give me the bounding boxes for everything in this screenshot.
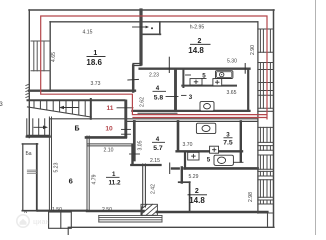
svg-text:3.65: 3.65 [227,90,237,96]
right wall window ladder bottom [258,127,274,204]
svg-text:h-2.95: h-2.95 [190,25,205,31]
red overlay apartment outline [41,16,267,120]
svg-text:5.29: 5.29 [189,174,199,180]
entrance porch [49,212,72,235]
wall right outer [273,10,275,227]
wall room5 bottom [182,85,236,87]
ticks corridor wall [122,129,131,134]
tick door room4b [130,153,140,155]
vent box 2 bottom [210,146,219,153]
wall room2b left jog [179,181,190,183]
wall cluster bottom (rooms 3,4) [132,110,249,112]
room5b bottom wall [185,167,258,170]
svg-text:3.05: 3.05 [138,140,144,150]
fixture toilet top apt [200,102,214,111]
leader room 5.8 [166,96,178,98]
svg-text:4.79: 4.79 [92,174,98,184]
wall room2 top inner [143,21,258,23]
svg-text:3.73: 3.73 [91,81,101,87]
wall room2b bottom [157,211,267,214]
svg-text:2.90: 2.90 [250,45,256,55]
left annex right wall [36,144,38,211]
left annex top wall [22,143,37,145]
right wall bottom step [258,212,274,214]
wall room2b left lower [189,182,191,211]
right wall window ladder top [258,29,274,108]
wall room5b left [184,153,186,169]
stairs arrow up flight [61,107,78,109]
svg-text:2.62: 2.62 [140,97,146,107]
svg-text:18.6: 18.6 [86,58,102,67]
vent box 1 top [190,79,202,85]
tick dim 5.30 [244,64,246,74]
wall room4b left vertical lower piece [131,145,133,165]
fixture washer bottom apt room5 [214,155,233,165]
wall room4b left [133,121,136,160]
wall corridor10 bottom band [27,136,50,138]
svg-text:2.50: 2.50 [102,207,112,213]
wall room1b top [87,143,133,145]
room3b left wall [177,121,180,150]
wall room1 top inner [50,21,141,23]
left annex window band [27,170,37,173]
svg-text:Б: Б [74,126,79,133]
window band below room1b [99,215,162,222]
room3b bottom wall [177,150,242,152]
vent arrow at partition [133,26,148,28]
wall room4/room2 bottom top band [140,68,250,70]
wall room1b bottom [87,210,144,212]
wall room4 left upper [132,66,135,92]
niche room2 corner [143,33,161,35]
vent box 2 top [213,79,222,86]
partition rooms 1|2 [139,10,142,64]
svg-text:2.15: 2.15 [150,158,160,164]
wall rooms1|4 jog [133,64,141,66]
wall room1 bottom band A [29,90,135,92]
svg-text:2.42: 2.42 [151,184,157,194]
divider pinch [138,112,177,114]
stairs big flight [27,100,91,117]
svg-text:14.8: 14.8 [189,196,205,205]
window left wall panes [33,41,35,71]
svg-text:11.2: 11.2 [108,180,121,187]
wall room6 bottom [38,210,87,212]
vent box 1 bottom [188,152,199,160]
svg-text:5.7: 5.7 [153,145,163,152]
hatch ticks left outer wall [26,84,30,98]
svg-text:11: 11 [107,105,114,112]
stairs small flight [27,119,50,136]
svg-text:5.8: 5.8 [154,94,164,101]
tick door room5 [186,74,191,76]
divider line lower [126,120,258,122]
wall room6 left [48,117,50,211]
svg-text:Ба: Ба [25,151,31,157]
wall room2b left upper [181,167,183,182]
svg-text:4.15: 4.15 [83,30,93,36]
leader room 3 top [182,94,187,96]
svg-text:5.23: 5.23 [54,162,60,172]
svg-text:2: 2 [195,188,199,195]
stairs flight right wall [90,99,92,119]
wall room1 left inner [49,22,51,91]
wall corridor11 top band B [28,99,125,101]
svg-text:3: 3 [189,94,193,101]
divider line upper [50,118,258,120]
svg-text:3.70: 3.70 [183,142,193,148]
tick chimney room2 bottom wall [168,57,170,72]
wall left outer upper [28,10,30,138]
wall room5 left jamb [182,70,184,87]
leader corridor 11 [117,107,133,109]
wall right mini corridor top apt [247,70,249,111]
svg-text:7.5: 7.5 [223,140,233,147]
svg-text:2.98: 2.98 [248,192,254,202]
svg-text:14.8: 14.8 [188,46,204,55]
wall room1b left [86,136,88,211]
svg-text:10: 10 [105,126,113,133]
wall top outer [29,9,274,11]
tick door room4b bottom [169,163,171,174]
tick vent room1 right wall [128,78,139,81]
svg-text:2.23: 2.23 [149,73,159,79]
left annex outer wall [22,144,24,211]
wall room1b right (hollow) [142,164,144,207]
left annex bottom wall [22,210,38,212]
svg-text:4.65: 4.65 [51,52,57,62]
window left wall caps [31,40,50,42]
tick door mini corridor b [234,161,243,163]
page edge grey line [315,0,317,235]
wall right mini corridor bottom apt [240,121,242,161]
wall corridors right [124,101,127,137]
svg-text:циан: циан [33,219,50,226]
svg-text:1.50: 1.50 [52,207,62,213]
fixture balcony hatch box [141,204,157,215]
wall room4 right [174,70,177,111]
svg-text:2.10: 2.10 [104,148,114,154]
stairs arrow small flight [34,126,46,128]
svg-text:5: 5 [207,156,211,163]
right wall inner line [257,22,259,213]
right wall divider junction lines [258,110,274,112]
fixture tank bottom apt [196,123,215,133]
wall band room4b lower [131,164,160,166]
svg-text:6: 6 [69,177,73,186]
wall bottom outer [68,226,274,228]
fixture stove top apt room5 [216,71,233,79]
svg-text:5.30: 5.30 [227,59,237,65]
wall room4b bottom piece [172,167,179,169]
watermark [17,215,50,227]
